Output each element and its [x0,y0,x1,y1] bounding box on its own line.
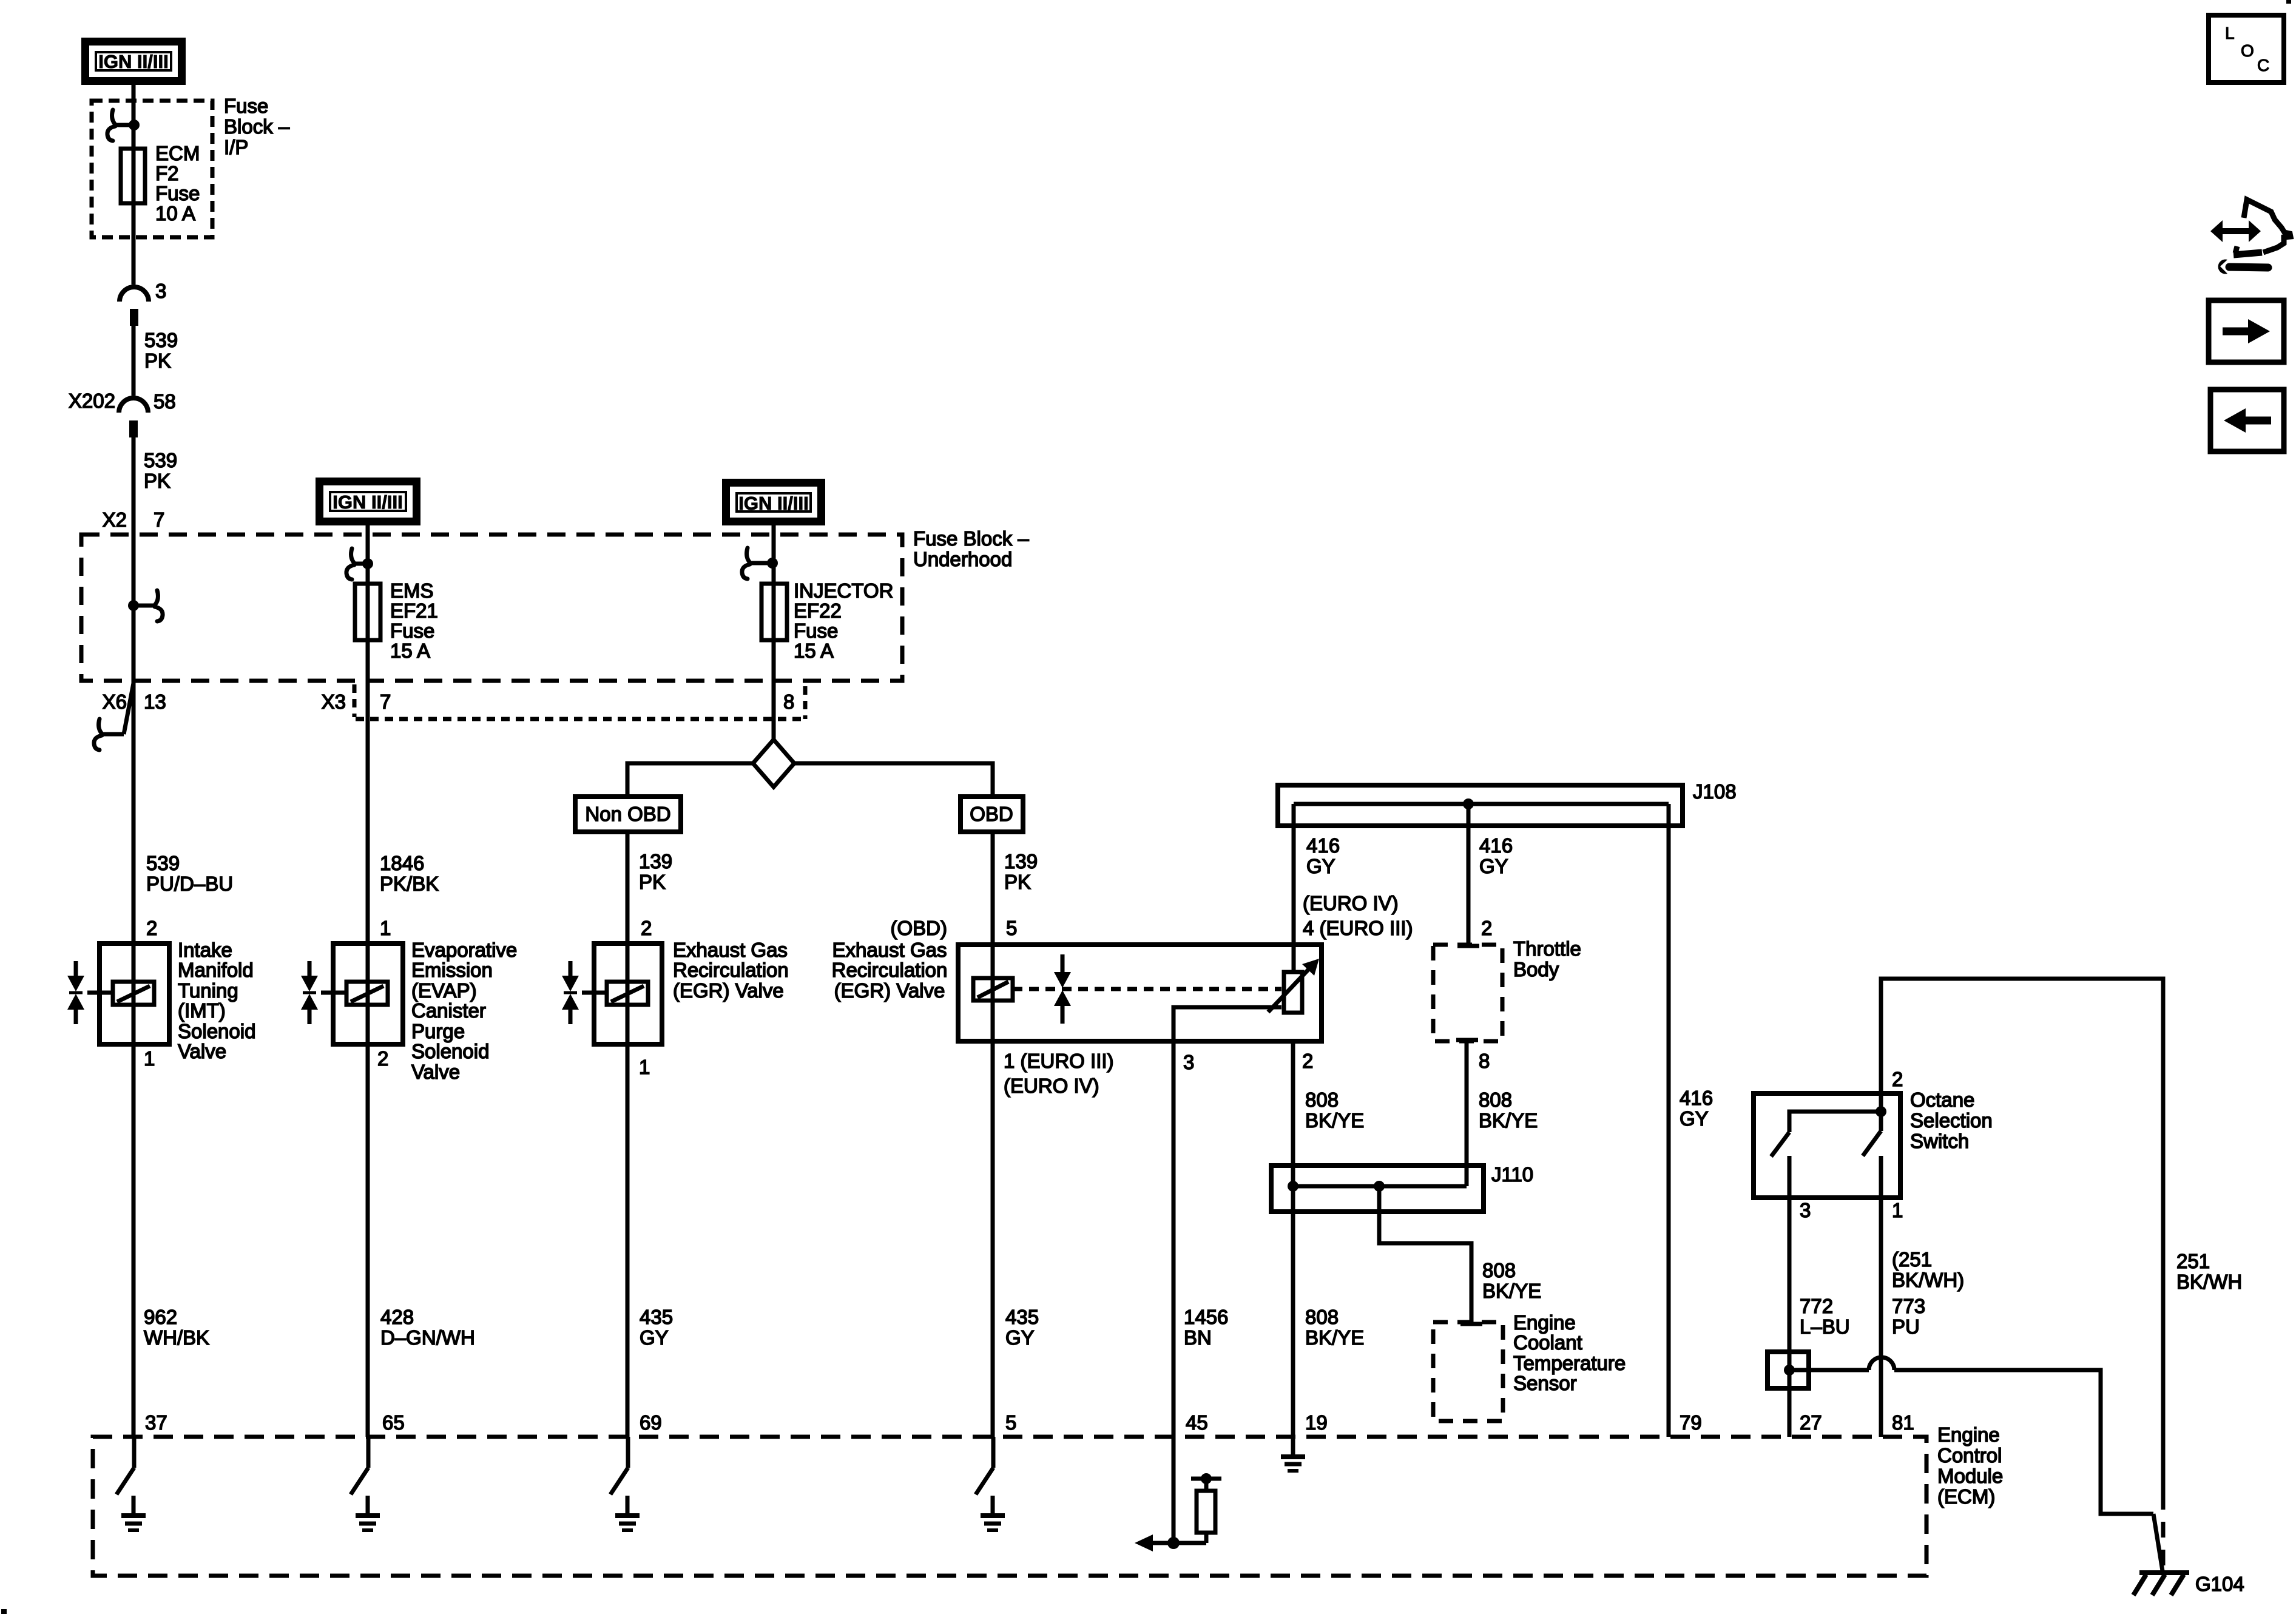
svg-text:PU/D–BU: PU/D–BU [146,873,233,895]
Engine Coolant Temperature Sensor dashed box [1433,1322,1503,1421]
EGR nonOBD solenoid coil [607,982,648,1005]
svg-text:37: 37 [145,1411,167,1434]
Non OBD label box [575,797,681,832]
svg-text:Canister: Canister [411,999,486,1022]
svg-text:Control: Control [1937,1444,2002,1467]
svg-text:GY: GY [1005,1326,1035,1349]
svg-text:808: 808 [1479,1089,1512,1111]
svg-text:27: 27 [1800,1411,1822,1434]
svg-text:Coolant: Coolant [1513,1331,1582,1354]
pin 2 label EGR nonOBD [641,917,652,939]
svg-text:Valve: Valve [411,1061,460,1083]
svg-text:(ECM): (ECM) [1937,1485,1995,1508]
svg-text:435: 435 [640,1306,673,1328]
svg-text:3: 3 [1183,1051,1194,1073]
svg-text:BK/WH): BK/WH) [1892,1269,1964,1291]
power label IGN II/III (B+ box 3) [726,483,822,522]
svg-text:19: 19 [1305,1411,1328,1434]
wire 962 WH/BK [132,1044,136,1437]
label 435 GY left [640,1306,673,1349]
svg-text:2: 2 [1892,1068,1903,1090]
pin 19 label [1305,1411,1328,1434]
pin 79 label [1680,1411,1702,1434]
pin 3 label EGR OBD [1183,1051,1194,1073]
svg-text:GY: GY [640,1326,669,1349]
label G104 [2195,1573,2244,1595]
svg-text:2: 2 [641,917,652,939]
label 808 BK/YE (a) [1305,1089,1364,1132]
svg-text:PK: PK [639,871,666,893]
EGR nonOBD valve symbol [562,961,607,1024]
svg-text:Tuning: Tuning [178,979,238,1002]
wire col2 down to EVAP [366,640,370,1044]
node/junction dot at F2 clip [115,120,140,130]
ECM internal switch pin 65 [351,1437,368,1494]
svg-text:BK/YE: BK/YE [1482,1280,1541,1302]
svg-text:3: 3 [155,280,166,302]
svg-text:Purge: Purge [411,1020,465,1042]
svg-text:X2: X2 [103,508,127,531]
svg-text:GY: GY [1479,855,1508,877]
ECM internal switch pin 69 [610,1437,628,1494]
svg-text:(EGR) Valve: (EGR) Valve [834,979,945,1002]
junction node col1 inside underhood block [128,600,155,611]
svg-text:PK: PK [144,470,171,492]
svg-text:Octane: Octane [1910,1089,1974,1111]
svg-text:10 A: 10 A [155,202,195,224]
wire 251 BK/WH loop (pin2 up and over to G104) [1881,979,2163,1494]
svg-text:PK/BK: PK/BK [380,873,439,895]
label 435 GY right [1005,1306,1039,1349]
vehicle service icon (wrench) [2218,260,2268,274]
svg-text:808: 808 [1482,1259,1516,1281]
junction dot INJECTOR clip [750,558,778,569]
svg-text:PK: PK [144,349,171,372]
svg-text:L–BU: L–BU [1800,1315,1850,1338]
arrow box (forward) [2209,300,2284,362]
svg-text:3: 3 [1800,1199,1811,1221]
label 251 BK/WH (right) [2176,1250,2242,1293]
svg-text:Intake: Intake [178,939,232,961]
pin 1 label EVAP [380,917,391,939]
svg-text:7: 7 [154,508,164,531]
svg-text:Module: Module [1937,1465,2003,1487]
svg-text:BK/WH: BK/WH [2176,1271,2242,1293]
pin 45 label [1186,1411,1208,1434]
svg-text:(IMT): (IMT) [178,999,226,1022]
wire col2 from IGN2 down [366,525,370,584]
label Exhaust Gas Recirculation (EGR) Valve left [673,939,789,1002]
wire col1 from IGN to fuse F2 [132,85,136,285]
svg-text:1: 1 [639,1056,650,1078]
svg-text:BN: BN [1184,1326,1212,1349]
power label IGN II/III (B+ box 2) [320,482,417,522]
svg-text:2: 2 [377,1047,388,1070]
svg-text:ECM: ECM [155,142,200,164]
label 808 BK/YE (b) [1479,1089,1538,1132]
svg-text:1846: 1846 [380,852,424,874]
wire col1 through underhood block down to IMT valve [132,606,136,1044]
wire 539 PK segment 2 [132,437,136,606]
fuse block I/P dashed box [92,101,212,237]
label (251 BK/WH) [1892,1248,1964,1291]
svg-text:773: 773 [1892,1295,1925,1317]
svg-text:PK: PK [1004,871,1031,893]
svg-text:Fuse: Fuse [390,619,434,642]
wire 251 BK/WH dashed segment [2161,1494,2166,1569]
label 808 BK/YE (d) [1305,1306,1364,1349]
pin 2 label IMT [146,917,157,939]
label Exhaust Gas Recirculation (EGR) Valve right (OBD) [832,939,948,1002]
scan artifact dot bottom left [1,1609,7,1614]
label Engine Control Module (ECM) [1937,1423,2003,1508]
pin 2 label throttle body [1481,917,1492,939]
LOC reference box [2209,15,2284,83]
svg-text:Switch: Switch [1910,1130,1969,1152]
svg-text:BK/YE: BK/YE [1479,1109,1538,1132]
ground G104 chassis symbol [2133,1573,2189,1595]
ground symbol pin 69 [615,1496,640,1530]
svg-text:Valve: Valve [178,1040,226,1062]
svg-text:Sensor: Sensor [1513,1372,1577,1394]
svg-text:X202: X202 [69,390,115,412]
svg-text:IGN II/III: IGN II/III [738,493,808,514]
label INJECTOR EF22 Fuse 15 A [794,579,893,662]
svg-text:F2: F2 [155,162,179,184]
svg-text:139: 139 [639,850,672,873]
fuse EMS EF21 symbol [355,584,380,640]
connector X3 pin 7 labels and dotted boundary [322,684,391,717]
svg-text:Body: Body [1513,958,1559,981]
svg-text:539: 539 [144,329,178,351]
wire 416 GY J108 right to ECM 79 [1667,804,1671,1437]
wire 435 GY left [626,1044,630,1437]
label 416 GY (right) [1680,1087,1713,1130]
label 139 PK left [639,850,672,893]
pin labels 1 (EURO III) / (EURO IV) [1004,1050,1114,1097]
ground symbol pin 19 (ECM internal) [1281,1437,1305,1471]
connector X3 dotted row line [356,686,807,719]
svg-text:2: 2 [146,917,157,939]
svg-text:GY: GY [1306,855,1335,877]
pin 2 label EVAP [377,1047,388,1070]
octane selection switch box [1754,1093,1900,1198]
pin 5 label ECM [1005,1411,1016,1434]
terminal clip INJECTOR fuse [742,548,750,579]
wire 773 PU (pin1 to ECM 81) [1879,1198,1883,1437]
pin 1 label EGR nonOBD [639,1056,650,1078]
svg-text:15 A: 15 A [390,640,430,662]
svg-text:I/P: I/P [224,136,248,158]
label 1846 PK/BK [380,852,439,895]
pin 65 label [382,1411,405,1434]
svg-text:Fuse: Fuse [794,619,838,642]
wire 435 GY right (pin1 to ECM 5) [991,1041,995,1437]
splice pack J108 [1278,785,1683,826]
power label IGN II/III (B+ box 1) [86,42,182,81]
svg-text:Engine: Engine [1937,1423,2000,1446]
svg-text:Solenoid: Solenoid [178,1020,255,1042]
inline connector box on 772 wire [1768,1352,1809,1388]
svg-text:Non OBD: Non OBD [585,803,670,825]
svg-text:435: 435 [1005,1306,1039,1328]
svg-text:EMS: EMS [390,579,434,602]
Engine Control Module dashed box [93,1437,1926,1576]
svg-text:Throttle: Throttle [1513,937,1581,960]
svg-text:EF22: EF22 [794,599,842,622]
pin 27 label [1800,1411,1822,1434]
svg-text:539: 539 [146,852,180,874]
pin 8 label throttle body [1479,1050,1490,1072]
svg-text:416: 416 [1306,834,1340,857]
svg-text:Engine: Engine [1513,1311,1576,1334]
svg-text:Emission: Emission [411,959,493,981]
svg-text:8: 8 [783,690,794,713]
splice pack J110 [1271,1041,1484,1212]
ground symbol pin 65 [356,1496,380,1530]
svg-text:Evaporative: Evaporative [411,939,517,961]
ground symbol pin 37 [121,1496,146,1530]
terminal clip EMS fuse [346,549,354,579]
EGR OBD internal wire to pin 3 [1173,1007,1281,1041]
IMT valve symbol [67,961,113,1024]
svg-text:O: O [2241,41,2254,60]
svg-text:(EURO IV): (EURO IV) [1303,892,1399,914]
ground symbol pin 5 [981,1496,1005,1530]
svg-text:Exhaust Gas: Exhaust Gas [673,939,788,961]
label Fuse Block - I/P [224,95,290,158]
label 139 PK right [1004,850,1038,893]
label 428 D-GN/WH [380,1306,475,1349]
label 416 GY (middle) [1479,834,1513,877]
svg-text:Exhaust Gas: Exhaust Gas [832,939,947,961]
svg-text:1 (EURO III): 1 (EURO III) [1004,1050,1114,1072]
fuse block underhood dashed box [81,535,902,681]
Throttle Body dashed box [1433,945,1502,1041]
svg-text:OBD: OBD [970,803,1013,825]
svg-text:(EVAP): (EVAP) [411,979,477,1002]
wire 772 L-BU (pin3 to ECM 27) [1788,1198,1792,1437]
EGR OBD valve symbol [1054,954,1071,1024]
terminal clip col1 underhood [155,590,163,621]
connector pin 3 (fuse block output) [120,280,166,326]
svg-text:Recirculation: Recirculation [673,959,789,981]
EGR OBD position sensor (potentiometer) [1268,959,1319,1013]
svg-text:Block –: Block – [224,115,290,138]
EGR valve (OBD) box [958,945,1322,1041]
svg-text:PU: PU [1892,1315,1920,1338]
vehicle service icon (car outline) [2234,200,2291,255]
IMT solenoid valve box [100,944,169,1044]
svg-text:IGN II/III: IGN II/III [333,491,402,513]
svg-text:81: 81 [1892,1411,1914,1434]
pin 8 label [783,690,794,713]
svg-text:Fuse: Fuse [155,182,200,204]
svg-text:58: 58 [154,390,176,413]
label 808 BK/YE (c) [1482,1259,1541,1302]
svg-text:GY: GY [1680,1107,1709,1130]
svg-text:539: 539 [144,449,177,471]
svg-text:Selection: Selection [1910,1109,1993,1132]
svg-text:8: 8 [1479,1050,1490,1072]
svg-text:G104: G104 [2195,1573,2244,1595]
wire 139 PK right [991,832,995,1041]
wire 1456 BN (pin3 to ECM 45) [1172,1041,1176,1437]
label Engine Coolant Temperature Sensor [1513,1311,1626,1394]
OBD label box [961,797,1023,832]
svg-text:4 (EURO III): 4 (EURO III) [1303,917,1413,939]
wire 808 BK/YE (EGR pin2 to J110) [1291,1041,1295,1437]
svg-text:1: 1 [380,917,391,939]
vehicle service icon (double arrow) [2210,220,2261,242]
label ECM F2 Fuse 10 A [155,142,200,224]
svg-text:Underhood: Underhood [913,548,1012,570]
connector X2 pin 7 labels [103,508,165,531]
pin 3 label octane [1800,1199,1811,1221]
wire 428 D-GN/WH [366,1044,370,1437]
splice diamond [753,740,794,787]
wire 139 PK left [626,832,630,1044]
pin 81 label [1892,1411,1914,1434]
svg-text:C: C [2257,56,2269,75]
pin 1 label IMT [144,1047,155,1070]
svg-text:Temperature: Temperature [1513,1352,1626,1374]
wire 539 PK segment 1 [132,326,136,396]
svg-text:808: 808 [1305,1306,1339,1328]
svg-text:L: L [2225,24,2235,42]
svg-text:416: 416 [1479,834,1513,857]
internal pull-up resistor [1173,1473,1221,1543]
svg-text:INJECTOR: INJECTOR [794,579,893,602]
pin 69 label [640,1411,662,1434]
ECM internal circuit pin 45 : wire [1172,1437,1176,1543]
label Throttle Body [1513,937,1581,981]
pin 5 label EGR OBD [1006,917,1017,939]
svg-text:69: 69 [640,1411,662,1434]
svg-text:1456: 1456 [1184,1306,1228,1328]
IMT solenoid coil [113,982,154,1005]
fuse INJECTOR EF22 symbol [761,584,787,640]
scan artifact dot top right [2286,0,2291,4]
svg-text:J108: J108 [1693,780,1737,803]
wire 416 GY J108 left to EGR pot [1292,804,1296,972]
pin 2 label octane switch [1892,1068,1903,1090]
junction dot EMS clip [354,558,373,569]
svg-text:X6: X6 [103,690,127,713]
EGR valve (non OBD) box [594,944,662,1044]
node at pin45 internal [1167,1537,1180,1549]
label (OBD) [891,917,948,939]
svg-text:962: 962 [144,1306,177,1328]
svg-text:Solenoid: Solenoid [411,1040,489,1062]
label Evaporative Emission (EVAP) Canister Purge Solenoid Valve [411,939,517,1083]
wire 416 GY J108 middle to throttle body [1457,804,1479,946]
fuse block terminal clip (F2) [107,110,115,141]
svg-text:2: 2 [1481,917,1492,939]
svg-text:2: 2 [1302,1050,1313,1072]
octane switch internal contacts [1771,1106,1886,1198]
svg-text:15 A: 15 A [794,640,834,662]
svg-text:IGN II/III: IGN II/III [98,51,168,72]
svg-text:7: 7 [380,690,391,713]
svg-text:251: 251 [2176,1250,2210,1272]
svg-text:1: 1 [1892,1199,1903,1221]
wire branch right to OBD [794,763,993,797]
label 539 PK (2) [144,449,177,492]
EVAP canister purge solenoid valve box [333,944,403,1044]
signal arrow left (internal) [1135,1534,1173,1551]
EVAP valve symbol [301,961,346,1024]
label EMS EF21 Fuse 15 A [390,579,438,662]
svg-text:Fuse: Fuse [224,95,268,117]
wire 808 BK/YE J110 to ECT sensor [1379,1186,1482,1324]
labels (EURO IV) / 4 (EURO III) [1303,892,1413,939]
wire col3 from IGN3 down [772,525,776,584]
ECM internal switch pin 5 [976,1437,993,1494]
label Fuse Block - Underhood [913,527,1029,570]
wire col3 to splice diamond [772,640,776,741]
wire branch left to Non OBD [627,763,753,797]
label 539 PK (1) [144,329,178,372]
svg-text:45: 45 [1186,1411,1208,1434]
arrow box (back) [2210,390,2284,451]
svg-text:Manifold: Manifold [178,959,254,981]
svg-text:(EURO IV): (EURO IV) [1004,1075,1099,1097]
svg-text:416: 416 [1680,1087,1713,1109]
svg-text:BK/YE: BK/YE [1305,1326,1364,1349]
pin 37 label [145,1411,167,1434]
label 1456 BN [1184,1306,1228,1349]
pin 2 label EGR OBD [1302,1050,1313,1072]
svg-text:13: 13 [144,690,166,713]
label Octane Selection Switch [1910,1089,1993,1152]
label J108 [1693,780,1737,803]
svg-text:WH/BK: WH/BK [144,1326,209,1349]
svg-text:5: 5 [1005,1411,1016,1434]
svg-text:5: 5 [1006,917,1017,939]
label 773 PU [1892,1295,1925,1338]
connector X202 pin 58 [69,390,176,437]
svg-text:Recirculation: Recirculation [832,959,948,981]
label Intake Manifold Tuning (IMT) Solenoid Valve [178,939,255,1062]
svg-text:D–GN/WH: D–GN/WH [380,1326,475,1349]
svg-text:808: 808 [1305,1089,1339,1111]
pin 1 label octane [1892,1199,1903,1221]
svg-text:EF21: EF21 [390,599,438,622]
label 416 GY (left) [1306,834,1340,877]
EVAP solenoid coil [346,982,388,1005]
svg-text:139: 139 [1004,850,1038,873]
connector X6 pin 13 tap and clip [94,683,166,750]
EGR OBD solenoid coil [973,978,1013,1001]
svg-text:Fuse Block –: Fuse Block – [913,527,1029,550]
wire from connector to G104 (with hop over 773) [1789,1357,2163,1571]
svg-text:428: 428 [380,1306,414,1328]
svg-text:79: 79 [1680,1411,1702,1434]
svg-text:J110: J110 [1491,1163,1533,1186]
svg-text:772: 772 [1800,1295,1833,1317]
EGR OBD internal dashed link [1013,987,1281,991]
svg-text:(OBD): (OBD) [891,917,948,939]
label J110 [1491,1163,1533,1186]
svg-text:65: 65 [382,1411,405,1434]
svg-text:(EGR) Valve: (EGR) Valve [673,979,784,1002]
ECM internal switch pin 37 [116,1437,134,1494]
svg-text:X3: X3 [322,690,346,713]
fuse F2 symbol [121,149,145,203]
label 539 PU/D-BU [146,852,233,895]
svg-text:(251: (251 [1892,1248,1932,1271]
